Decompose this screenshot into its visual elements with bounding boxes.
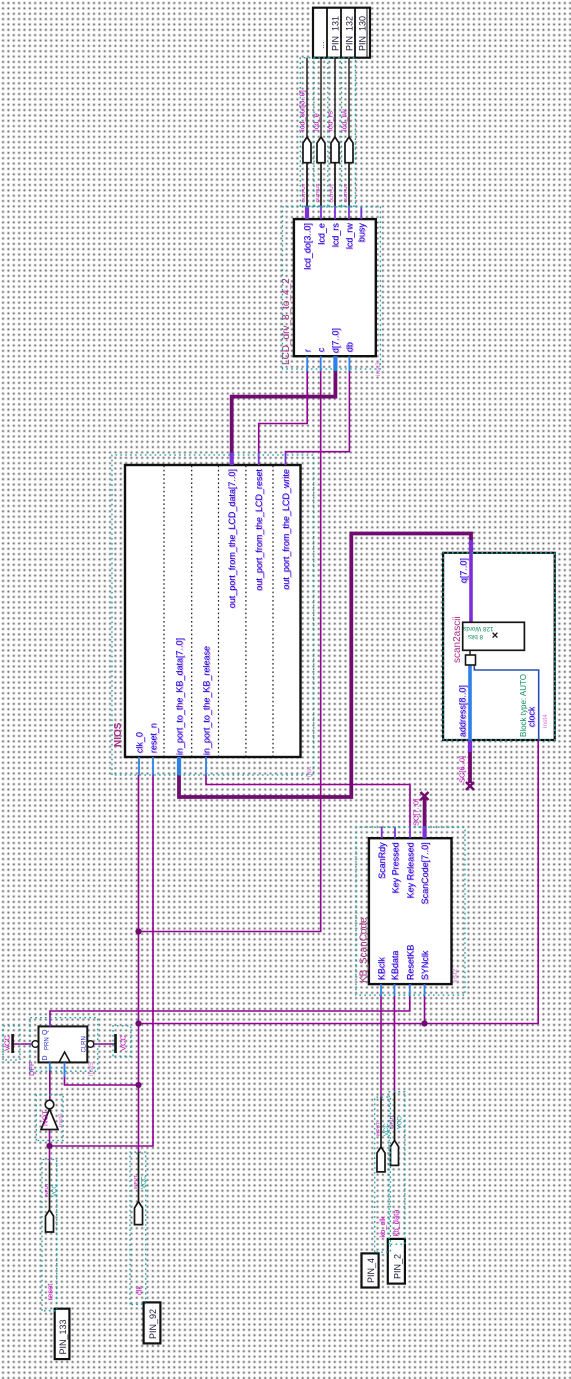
svg-text:ScanRdy: ScanRdy [377, 842, 387, 879]
input pin clk symbol [133, 1152, 147, 1295]
ROM address register box [466, 655, 476, 665]
LCD port stub busy dangling [360, 207, 362, 219]
svg-text:lcd_rw: lcd_rw [340, 109, 349, 131]
KB port stub ScanRdy dangling [381, 827, 383, 839]
KB port stub KBdata [394, 984, 396, 996]
svg-text:PIN_133: PIN_133 [58, 1319, 68, 1354]
NIOS port stub clk_0 [138, 757, 140, 775]
svg-text:ScanCode[7..0]: ScanCode[7..0] [420, 842, 430, 904]
LCD port stub db [348, 356, 350, 371]
svg-text:PIN_131: PIN_131 [331, 16, 341, 51]
X marker SC[7..0] dangling bus end [421, 792, 429, 800]
svg-text:inst4: inst4 [542, 714, 549, 728]
svg-text:8 bits: 8 bits [468, 633, 483, 640]
svg-text:lcd_rw: lcd_rw [344, 223, 354, 250]
wire clk branch to DFF clock [65, 1076, 139, 1085]
svg-text:out_port_from_the_LCD_data[7..: out_port_from_the_LCD_data[7..0] [227, 469, 237, 608]
KB port stub ResetKB [409, 984, 411, 996]
svg-text:VCC: VCC [142, 1176, 148, 1189]
svg-text:...: ... [316, 41, 326, 49]
svg-text:inst2: inst2 [452, 968, 459, 982]
svg-text:lcd_e: lcd_e [312, 113, 321, 131]
svg-text:OUTPUT: OUTPUT [301, 183, 306, 202]
LCD port stub lcd_rw [348, 206, 350, 219]
LCD port stub lcd_e [320, 206, 322, 219]
svg-text:128 Words: 128 Words [463, 625, 493, 632]
NIOS port stub reset_n [152, 757, 154, 775]
svg-text:lcd_do[3..0]: lcd_do[3..0] [302, 223, 312, 270]
bus ROM q to NIOS in_port_to_the_KB_data [179, 534, 471, 798]
svg-text:Key Pressed: Key Pressed [391, 842, 401, 893]
svg-text:db: db [345, 342, 355, 352]
DFF clock stub [64, 1062, 66, 1077]
selection box DFF [30, 1018, 98, 1072]
block U4 scan2ascii ROM body [443, 553, 555, 740]
VCC top symbol wire [13, 1043, 33, 1045]
bus NIOS out_port_from_the_LCD_data to LCD d [232, 370, 336, 454]
LCD port stub lcd_rs [334, 206, 336, 219]
svg-text:in_port_to_the_KB_release: in_port_to_the_KB_release [202, 646, 212, 755]
svg-text:ResetKB: ResetKB [405, 944, 415, 980]
selection boxes output pins [300, 58, 355, 207]
ROM x mark [493, 633, 498, 638]
wire clk branch down to SYNclk and ROM clock [139, 740, 539, 1024]
junction clk to DFF clock [135, 1082, 141, 1088]
svg-text:c: c [316, 347, 326, 352]
NOT gate triangle [41, 1109, 58, 1130]
wire NOT output to DFF D [49, 1070, 51, 1101]
output pin lcd_rs leader line [334, 58, 336, 137]
svg-text:SC[6..0]: SC[6..0] [458, 756, 467, 783]
svg-text:lcd_out[3..0]: lcd_out[3..0] [298, 90, 307, 131]
svg-text:reset_n: reset_n [149, 723, 159, 753]
output pin lcd_rw symbol [345, 137, 353, 163]
NIOS port stub in_port_to_the_KB_release [205, 757, 207, 775]
svg-text:q[7..0]: q[7..0] [459, 558, 469, 583]
selection box NOT [36, 1095, 63, 1141]
output pin lcd_rs symbol [331, 137, 339, 163]
pin location table PIN_92 [144, 1302, 161, 1343]
selection box input pin clk [130, 1152, 146, 1304]
ROM q internal line [469, 553, 473, 623]
output pin lcd_rw wire [348, 163, 350, 207]
selection box VCC top [3, 1026, 20, 1060]
svg-text:CLRN: CLRN [82, 1036, 88, 1052]
selection box input pin reset [42, 1160, 57, 1311]
junction clk to SYNclk branch [135, 1020, 141, 1026]
svg-text:VCC: VCC [53, 1184, 59, 1197]
junction SYNclk tee [421, 1020, 427, 1026]
svg-text:lcd_rs: lcd_rs [326, 111, 335, 131]
svg-text:busy: busy [357, 223, 367, 243]
wire clk branch SYNclk segment [424, 996, 426, 1024]
svg-text:OUTPUT: OUTPUT [343, 183, 348, 202]
bus ScanCode SC[7..0] stub [423, 798, 427, 827]
wire kb_data pin to KB KBdata [394, 996, 396, 1092]
svg-text:inst6: inst6 [58, 1113, 65, 1127]
ROM address outside stub [468, 740, 472, 752]
svg-text:KBdata: KBdata [390, 950, 400, 980]
ROM address internal line [468, 665, 472, 740]
ROM clock internal line [474, 665, 538, 740]
wire NIOS out_port_from_the_LCD_write to LCD db [286, 370, 350, 454]
DFF clock triangle [59, 1052, 70, 1062]
svg-text:D: D [42, 1055, 49, 1060]
wire kb_clk pin to KB KBclk [380, 996, 382, 1098]
wire reset net branch to NIOS reset_n [50, 774, 154, 1146]
selection box LCD [283, 207, 381, 369]
selection box input pin kb_data [389, 1092, 405, 1244]
svg-text:SC[7..0]: SC[7..0] [412, 799, 421, 826]
svg-text:d[7..0]: d[7..0] [331, 328, 341, 353]
ROM capacity text rotated [463, 625, 493, 640]
output pin lcd_out[3..0] wire [306, 163, 308, 207]
svg-text:clk: clk [134, 1286, 143, 1295]
svg-text:OUTPUT: OUTPUT [315, 183, 320, 202]
selection box input pin kb_clk [375, 1097, 391, 1252]
block U1 NIOS body [125, 465, 301, 757]
svg-text:clk_0: clk_0 [135, 732, 145, 753]
VCC top bar [11, 1034, 14, 1053]
svg-text:address[8..0]: address[8..0] [458, 685, 468, 737]
bus address SC[6..0] stub [468, 752, 472, 783]
svg-text:Key Released: Key Released [406, 842, 416, 898]
svg-text:PRN: PRN [45, 1037, 51, 1050]
svg-text:INPUT: INPUT [376, 1122, 381, 1136]
VCC bottom symbol wire [94, 1043, 116, 1045]
wire reset pin to NOT input [49, 1130, 51, 1162]
svg-text:in_port_to_the_KB_data[7..0]: in_port_to_the_KB_data[7..0] [175, 638, 185, 755]
wire clk net main horizontal [138, 775, 140, 1152]
block U2 LCD_drv_8_to_4_2 body [294, 219, 376, 356]
svg-text:INPUT: INPUT [389, 1115, 394, 1129]
pin location table PIN_131 PIN_132 PIN_130 [313, 8, 370, 58]
svg-text:DFF: DFF [27, 1061, 36, 1076]
wire clk branch to LCD c [139, 370, 321, 932]
selection box NIOS [112, 455, 314, 775]
block U3 KB_ScanCode body [369, 838, 452, 984]
input pin kb_clk symbol [376, 1097, 390, 1238]
svg-text:PIN_92: PIN_92 [148, 1309, 158, 1339]
svg-text:reset: reset [45, 1283, 54, 1301]
output pin lcd_out[3..0] symbol [303, 137, 311, 163]
svg-text:KB_ScanCode: KB_ScanCode [359, 917, 370, 983]
LCD port stub d bus [333, 356, 337, 371]
DFF Q stub [49, 1018, 51, 1026]
selection box VCC bottom [113, 1026, 131, 1056]
svg-text:NOT: NOT [41, 1110, 50, 1126]
svg-text:r: r [303, 349, 313, 352]
svg-text:INPUT: INPUT [44, 1183, 49, 1197]
KB port stub KeyReleased [409, 827, 411, 839]
svg-text:inst5: inst5 [88, 1062, 95, 1076]
LCD port stub c [320, 356, 322, 371]
KB port stub KBclk [380, 984, 382, 996]
KB port stub SYNclk [424, 984, 426, 996]
input pin reset symbol [44, 1162, 58, 1301]
KB port stub ScanCode bus [423, 827, 427, 839]
junction clk to LCD c branch [135, 928, 141, 934]
ROM q output stub [469, 540, 473, 553]
pin location table PIN_4 [362, 1253, 379, 1287]
svg-text:OUTPUT: OUTPUT [329, 183, 334, 202]
svg-text:SYNclk: SYNclk [420, 950, 430, 980]
output pin lcd_rw leader line [348, 58, 350, 137]
junction clk at reset branch corner [46, 1143, 52, 1149]
svg-text:PIN_132: PIN_132 [345, 16, 355, 51]
output pin lcd_e symbol [317, 137, 325, 163]
DFF body [39, 1026, 88, 1062]
selection box scan2ascii [443, 553, 555, 740]
svg-text:NIOS: NIOS [113, 722, 124, 747]
svg-text:lcd_rs: lcd_rs [330, 223, 340, 248]
NOT gate bubble [45, 1100, 54, 1109]
output pin lcd_e leader line [320, 58, 322, 137]
svg-text:scan2ascii: scan2ascii [452, 616, 463, 663]
input pin kb_data symbol [389, 1092, 403, 1237]
output pin lcd_out[3..0] leader line [306, 58, 308, 137]
svg-text:kb_clk: kb_clk [378, 1216, 387, 1238]
output pin lcd_e wire [320, 163, 322, 207]
selection box KB [356, 827, 465, 995]
svg-text:out_port_from_the_LCD_reset: out_port_from_the_LCD_reset [254, 469, 264, 591]
LCD port stub lcd_do bus [305, 206, 309, 219]
svg-text:out_port_from_the_LCD_write: out_port_from_the_LCD_write [281, 469, 291, 590]
ROM memory array box [463, 622, 525, 650]
svg-text:lcd_e: lcd_e [316, 223, 326, 245]
svg-text:clock: clock [527, 706, 537, 727]
wire NIOS out_port_from_the_LCD_reset to LCD r [259, 370, 308, 454]
svg-text:Q: Q [42, 1029, 49, 1035]
NIOS port stub out_port_from_the_LCD_data bus [230, 453, 234, 466]
output pin lcd_rs wire [334, 163, 336, 207]
svg-text:KBclk: KBclk [377, 956, 387, 980]
DFF D stub [49, 1062, 51, 1070]
svg-text:PIN_2: PIN_2 [393, 1254, 403, 1279]
DFF PRN bubble [32, 1041, 39, 1048]
DFF CLRN bubble [87, 1041, 94, 1048]
LCD port stub r [306, 356, 308, 371]
svg-text:PIN_130: PIN_130 [358, 16, 368, 51]
wire DFF Q to KB ResetKB [50, 996, 410, 1020]
pin location table PIN_133 [55, 1309, 70, 1359]
pin location table PIN_2 [388, 1239, 405, 1284]
svg-text:kb_data: kb_data [392, 1209, 401, 1237]
svg-text:Block type: AUTO: Block type: AUTO [519, 674, 528, 737]
svg-text:INPUT: INPUT [133, 1175, 138, 1189]
VCC bottom bar [114, 1034, 117, 1053]
X marker SC[6..0] dangling bus end [466, 782, 474, 790]
wire KeyReleased to NIOS in_port_to_the_KB_release [206, 774, 410, 827]
ROM register to array link [469, 650, 471, 655]
svg-text:VCC: VCC [119, 1035, 128, 1051]
NIOS port stub out_port_from_the_LCD_write [285, 453, 287, 466]
svg-text:LCD_drv_8_to_4_2: LCD_drv_8_to_4_2 [281, 278, 292, 365]
NIOS port stub in_port_to_the_KB_data bus [177, 757, 181, 775]
KB port stub KeyPressed dangling [394, 827, 396, 839]
svg-text:PIN_4: PIN_4 [366, 1258, 376, 1283]
svg-text:VCC: VCC [398, 1116, 404, 1129]
NIOS port stub out_port_from_the_LCD_reset [258, 453, 260, 466]
svg-text:VCC: VCC [3, 1035, 12, 1051]
